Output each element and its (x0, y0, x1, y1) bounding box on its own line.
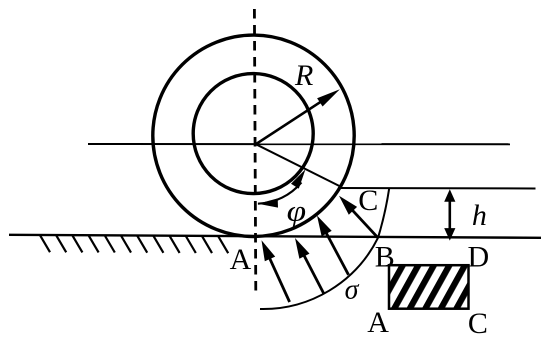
svg-text:B: B (375, 240, 395, 273)
svg-text:φ: φ (287, 195, 307, 228)
svg-text:C: C (358, 184, 378, 217)
svg-text:σ: σ (345, 275, 360, 306)
svg-text:A: A (367, 306, 389, 339)
svg-text:R: R (294, 59, 313, 92)
svg-text:D: D (467, 241, 489, 274)
svg-text:h: h (472, 199, 487, 232)
svg-text:C: C (468, 307, 488, 340)
svg-text:A: A (230, 243, 252, 276)
